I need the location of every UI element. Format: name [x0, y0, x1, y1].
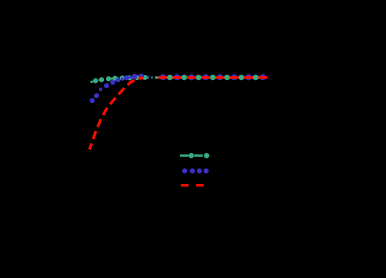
legend red dashed sample: [181, 184, 204, 187]
legend blue dotted sample with markers: [182, 168, 209, 173]
red series dashed line rising part: [90, 78, 144, 150]
green series dash-dot line: [91, 77, 268, 82]
blue series markers: [90, 74, 266, 104]
green series markers: [93, 75, 259, 84]
legend green dash-dot sample with markers: [180, 153, 209, 158]
red series dashed line plateau part: [158, 76, 268, 79]
blue series dotted-line dots: [99, 75, 150, 91]
